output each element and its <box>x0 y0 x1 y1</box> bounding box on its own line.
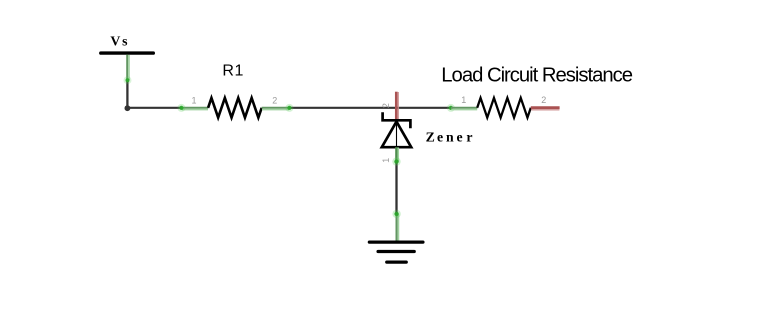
ground symbol bar 2 <box>378 250 414 253</box>
wire load resistor pin 1 leg (green) <box>451 108 478 110</box>
load resistor pin 2 red lead (unconnected) <box>531 108 560 110</box>
wire from junction to R1 pin 1 <box>126 107 182 109</box>
zener cathode red lead (unconnected, vertical) <box>396 92 398 122</box>
svg-text:2: 2 <box>381 103 391 108</box>
pin endpoint dot at Vs leg <box>124 76 132 84</box>
node junction dot (Vs / R1 / wire) <box>125 105 131 111</box>
pin endpoint dot R1 pin1 <box>177 104 185 112</box>
wire R1 pin 1 leg (green) <box>181 108 208 110</box>
svg-text:Zener: Zener <box>426 129 473 144</box>
pin endpoint dot zener anode <box>392 157 400 165</box>
pin endpoint dot R1 pin2 <box>285 104 293 112</box>
ground terminal leg (green) <box>397 214 399 242</box>
wire from zener anode down to ground <box>395 161 397 215</box>
wire R1 pin 2 leg (green) <box>262 108 290 110</box>
zener diode cathode bar with bent ends <box>383 112 411 128</box>
load resistor zigzag body <box>477 98 531 118</box>
svg-text:R1: R1 <box>222 62 243 79</box>
svg-text:1: 1 <box>191 95 196 105</box>
svg-text:Vs: Vs <box>110 33 128 48</box>
wire Vs pin leg (green) <box>127 55 129 81</box>
zener anode center lead line <box>396 122 398 147</box>
svg-text:1: 1 <box>381 158 391 163</box>
svg-text:1: 1 <box>461 95 466 105</box>
voltage source Vs terminal bar <box>101 51 154 54</box>
resistor R1 zigzag body <box>208 98 262 118</box>
wire zener anode pin leg (green) <box>396 147 398 161</box>
svg-text:2: 2 <box>541 95 546 105</box>
ground symbol bar 1 <box>369 240 423 243</box>
pin endpoint dot load pin1 <box>447 104 455 112</box>
ground symbol bar 3 <box>387 260 406 263</box>
zener diode anode triangle <box>382 122 411 148</box>
svg-text:2: 2 <box>272 95 277 105</box>
wire from R1 pin 2 to load resistor pin 1 <box>289 107 451 109</box>
pin endpoint dot at ground leg <box>392 210 400 218</box>
wire from Vs terminal down to junction <box>126 79 128 109</box>
svg-text:Load Circuit Resistance: Load Circuit Resistance <box>441 65 632 87</box>
